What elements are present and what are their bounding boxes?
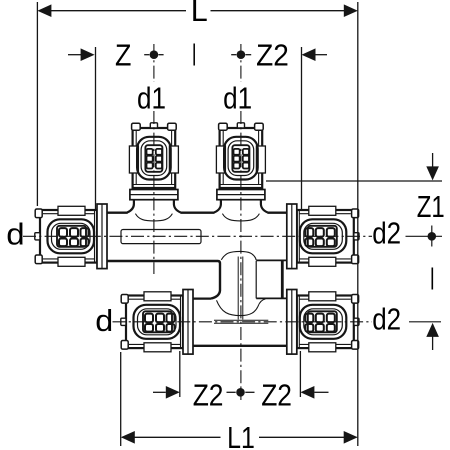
extension line Z2 plane right xyxy=(301,47,303,210)
svg-text:Z1: Z1 xyxy=(417,189,445,224)
chain dot 2 xyxy=(237,50,246,59)
svg-text:d2: d2 xyxy=(372,216,401,251)
dimension L1 arrow left xyxy=(121,431,135,444)
svg-text:Z2: Z2 xyxy=(256,37,289,72)
chain dash right of dot 2 xyxy=(245,54,251,56)
upper pipe top edge left segment xyxy=(107,212,128,214)
extension line bottom Z2 right xyxy=(299,351,301,397)
lower pipe top edge left segment xyxy=(193,297,211,299)
lower pipe bore band bottom xyxy=(214,322,268,324)
dimension L arrow left xyxy=(37,4,51,17)
svg-text:Z2: Z2 xyxy=(193,378,224,413)
branch 2 bore arc xyxy=(222,214,259,221)
extension line L left xyxy=(36,2,38,206)
right chain vertical dash at upper dot xyxy=(431,226,433,247)
stub saddle arc xyxy=(221,251,256,260)
chain dash right of bottom dot xyxy=(245,391,254,393)
svg-text:L1: L1 xyxy=(227,420,255,450)
lower pipe bore band top xyxy=(214,319,268,321)
stub right wall xyxy=(255,261,257,298)
chain dash left of dot 1 xyxy=(144,54,149,56)
upper pipe axis centerline xyxy=(23,235,372,237)
upper pipe top edge right segment xyxy=(267,212,287,214)
chain dot right xyxy=(428,232,437,241)
dimension Z2 arrow with tail xyxy=(302,48,316,61)
lower tee bore arc xyxy=(217,299,266,316)
coupling d2 lower right xyxy=(287,290,359,355)
chain dot bottom xyxy=(236,388,245,397)
extension line L and L1 right xyxy=(357,2,359,446)
upper pipe bottom edge left segment with stub left wall xyxy=(107,261,220,299)
svg-text:d: d xyxy=(95,303,113,338)
coupling d2 upper right xyxy=(287,204,359,269)
dimension bottom Z2 left arrow with tail xyxy=(153,391,166,393)
lower pipe top edge right segment xyxy=(256,297,287,299)
dimension bottom Z2 right arrow with tail xyxy=(300,386,314,399)
stub bore line left xyxy=(237,257,239,320)
svg-text:d1: d1 xyxy=(137,80,166,115)
dimension l arrow with tail xyxy=(426,323,439,337)
branch 1 bore arc xyxy=(135,214,172,221)
upper pipe bottom edge right segment xyxy=(256,259,287,261)
chain dash left of bottom dot xyxy=(227,391,236,393)
branch 1 axis centerline upper part xyxy=(153,44,155,82)
svg-text:d2: d2 xyxy=(372,301,401,336)
chain dash left of dot 2 xyxy=(231,54,236,56)
branch 2 axis centerline upper part xyxy=(240,44,242,82)
svg-text:Z: Z xyxy=(115,38,131,73)
chain dot 1 xyxy=(150,50,159,59)
svg-text:l: l xyxy=(192,38,196,73)
upper pipe top edge middle segment xyxy=(180,212,214,214)
extension line bottom Z2 left xyxy=(179,351,181,397)
extension line Z1 plane horizontal xyxy=(266,180,442,182)
svg-text:Z2: Z2 xyxy=(261,378,292,413)
svg-text:d: d xyxy=(6,217,24,252)
coupling d1 branch 1 xyxy=(127,123,180,213)
dimension L1 line xyxy=(122,436,221,438)
lower pipe axis centerline xyxy=(113,321,373,323)
chain dash right of dot 1 xyxy=(158,54,163,56)
extension line Z plane left xyxy=(95,47,97,209)
upper axis solid right segment xyxy=(406,235,443,237)
svg-text:L: L xyxy=(191,0,208,28)
pipe insertion rectangle upper xyxy=(121,230,201,244)
svg-text:l: l xyxy=(430,261,434,296)
lower pipe bottom edge xyxy=(193,345,287,347)
svg-text:d1: d1 xyxy=(223,80,252,115)
web between upper and lower pipe at right xyxy=(281,260,284,299)
stub bore line right xyxy=(242,257,244,320)
dimension Z arrow with tail xyxy=(68,54,81,56)
branch 2 axis centerline lower part xyxy=(240,111,242,400)
extension line L1 left xyxy=(120,352,122,446)
dimension L arrow right xyxy=(344,4,358,17)
coupling d1 branch 2 xyxy=(214,123,267,213)
coupling d lower left xyxy=(121,290,193,355)
dimension L line xyxy=(39,10,186,12)
lower axis solid right segment xyxy=(409,321,441,323)
branch 1 axis centerline lower part xyxy=(153,111,155,274)
coupling d upper left xyxy=(35,204,107,269)
dimension Z1 arrow with tail xyxy=(432,153,434,167)
dimension L1 arrow right xyxy=(344,431,358,444)
